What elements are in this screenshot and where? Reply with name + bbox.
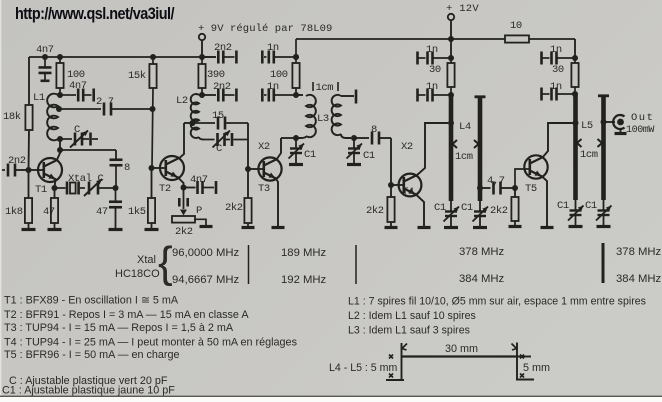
note L1 bbox=[348, 296, 646, 308]
svg-text:HC18CO: HC18CO bbox=[115, 268, 160, 280]
freq 96,0000 bbox=[172, 247, 240, 259]
resistor 390 bbox=[198, 57, 205, 95]
node rail-12V bbox=[448, 36, 454, 42]
wire T1 base bbox=[29, 169, 45, 171]
ground 2k2 T3 bbox=[242, 223, 255, 228]
node T1 collector bbox=[57, 147, 63, 153]
freq 192 bbox=[281, 274, 327, 286]
freq 384 a bbox=[459, 273, 505, 285]
capacitor 4n7 bypass at rail bbox=[39, 57, 52, 81]
svg-text:T4: T4 bbox=[402, 186, 414, 198]
wire supply rail 12V bbox=[296, 38, 575, 40]
svg-text:http://www.qsl.net/va3iul/: http://www.qsl.net/va3iul/ bbox=[15, 5, 175, 23]
dim left leg bbox=[401, 343, 403, 380]
svg-text:L1: L1 bbox=[33, 92, 45, 104]
label 1n s4b bbox=[426, 81, 438, 93]
svg-text:378 MHz: 378 MHz bbox=[459, 246, 505, 258]
svg-text:T1 : BFX89 - En oscillation I: T1 : BFX89 - En oscillation I ≅ 5 mA bbox=[4, 295, 179, 307]
trimmer C (T2 stage) bbox=[204, 131, 248, 148]
svg-text:L3: L3 bbox=[317, 113, 329, 125]
label 100 bbox=[67, 69, 85, 81]
note L4-L5 bbox=[329, 362, 397, 374]
svg-text:1cm: 1cm bbox=[316, 82, 334, 94]
ground cap47 bbox=[109, 228, 123, 231]
capacitor 1n (stage5 lower) bbox=[542, 88, 576, 101]
node T3 base bbox=[245, 166, 251, 172]
node T4 base bbox=[388, 182, 394, 188]
wire 12V down to stage4 bbox=[450, 39, 452, 58]
wire T5 base lead bbox=[515, 169, 529, 188]
freq 189 bbox=[281, 247, 327, 259]
wire T3 collector up bbox=[277, 138, 282, 160]
note L2 bbox=[348, 310, 476, 322]
label 1k5 bbox=[128, 206, 146, 218]
label L5 bbox=[581, 120, 593, 132]
label T1 bbox=[35, 184, 47, 196]
label +12V bbox=[446, 3, 479, 15]
ground pot bbox=[200, 225, 213, 228]
svg-text:1cm: 1cm bbox=[455, 151, 473, 163]
label 1cm L4 bbox=[455, 151, 473, 163]
node L3sec bottom bbox=[351, 135, 357, 141]
svg-text:1n: 1n bbox=[426, 44, 438, 56]
svg-text:5 mm: 5 mm bbox=[523, 362, 550, 374]
url header text bbox=[15, 5, 175, 23]
capacitor 8 (T4 coupling) bbox=[354, 132, 391, 145]
svg-text:C1 : Ajustable plastique jaune: C1 : Ajustable plastique jaune 10 pF bbox=[2, 385, 175, 397]
label 1n rail bbox=[267, 42, 279, 54]
wire collector row to cap8 bbox=[60, 150, 116, 159]
spacing arrows L5 bbox=[577, 139, 602, 147]
svg-text:L1 : 7 spires fil 10/10, Ø5 mm: L1 : 7 spires fil 10/10, Ø5 mm sur air, … bbox=[348, 296, 646, 308]
wire T4 base lead bbox=[391, 184, 403, 186]
node L2 tap bbox=[190, 120, 196, 126]
resistor 2k2 (T4 base) bbox=[387, 185, 394, 222]
label C (T1) bbox=[74, 124, 80, 136]
node T2 emitter bbox=[181, 185, 187, 191]
scan edge line bbox=[0, 396, 662, 397]
dim 30mm line bbox=[402, 355, 518, 357]
capacitor 2n2 (L2 top) bbox=[202, 89, 236, 102]
capacitor 15 bbox=[218, 117, 248, 130]
label 2k2 T5 bbox=[490, 205, 508, 217]
label 1n s5b bbox=[550, 81, 562, 93]
node T2 base bbox=[149, 165, 155, 171]
wire T2 collector up bbox=[179, 152, 185, 159]
trimmer C1 (L3 secondary) bbox=[347, 138, 363, 165]
label 15k bbox=[128, 70, 146, 82]
note T2 bbox=[4, 309, 249, 321]
label HC18CO bbox=[115, 268, 160, 280]
ground T4 emitter bbox=[418, 226, 431, 229]
label Xtal C bbox=[68, 173, 104, 185]
node L1 tap bbox=[56, 106, 62, 112]
ground 2k2 T4 bbox=[385, 222, 398, 228]
svg-text:4n7: 4n7 bbox=[190, 174, 208, 186]
note T5 bbox=[4, 349, 180, 361]
capacitor 4n7 (L1 top coupling) bbox=[60, 89, 94, 102]
spacing arrows L4 bbox=[453, 140, 479, 148]
legend 1cm coupling bbox=[313, 82, 338, 94]
wire T1 emitter down bbox=[55, 179, 56, 188]
freq 378 b bbox=[616, 246, 662, 258]
svg-text:8: 8 bbox=[371, 124, 377, 136]
trimmer C (Xtal series) bbox=[84, 179, 116, 196]
resistor 47 (T1 emitter) bbox=[51, 198, 58, 223]
dim arrow 5mm left top bbox=[389, 355, 393, 359]
resistor 2k2 (T5 base) bbox=[511, 188, 518, 221]
svg-text:189 MHz: 189 MHz bbox=[281, 247, 327, 259]
svg-text:1n: 1n bbox=[550, 81, 562, 93]
trimmer C (T1 feedback) bbox=[60, 131, 98, 148]
note L3 bbox=[348, 325, 470, 337]
label T4 bbox=[402, 186, 414, 198]
label L1 bbox=[33, 92, 45, 104]
svg-text:T3: T3 bbox=[258, 183, 270, 195]
wiper arrow onto pot bbox=[180, 210, 187, 216]
trimmer C1 (L5 right) bbox=[596, 200, 612, 227]
svg-text:384 MHz: 384 MHz bbox=[616, 273, 662, 285]
label 18k bbox=[3, 111, 21, 123]
label 30 s5 bbox=[552, 64, 564, 76]
label 1k8 bbox=[5, 206, 23, 218]
svg-text:30: 30 bbox=[552, 64, 564, 76]
resistor 15k (T2 base) bbox=[149, 57, 156, 168]
svg-text:47: 47 bbox=[43, 206, 55, 218]
wire L1 tap row bbox=[59, 108, 101, 110]
label 1cm L5 bbox=[580, 149, 598, 161]
svg-text:2k2: 2k2 bbox=[366, 205, 384, 217]
label 4,7 bbox=[487, 175, 505, 187]
label C1 c bbox=[434, 202, 446, 214]
inductor L4 left line bbox=[449, 95, 454, 201]
resistor 2k2 (T3 base) bbox=[244, 198, 251, 223]
capacitor 2n2 rail bypass bbox=[202, 51, 236, 64]
freq 94,6667 bbox=[172, 274, 240, 286]
node rail-100b-junction bbox=[293, 54, 299, 60]
ground T5 emitter bbox=[541, 226, 554, 229]
inductor L1 bbox=[47, 94, 60, 141]
svg-text:+ 12V: + 12V bbox=[446, 3, 479, 15]
wire left drop to 18k bbox=[28, 57, 30, 105]
svg-text:1k5: 1k5 bbox=[128, 206, 146, 218]
ground 2k2 T5 bbox=[509, 221, 522, 227]
svg-text:+ 9V régulé par 78L09: + 9V régulé par 78L09 bbox=[198, 23, 332, 35]
label 47 emitter bbox=[43, 206, 55, 218]
svg-text:100: 100 bbox=[270, 69, 288, 81]
node rail-9V bbox=[199, 54, 205, 60]
note C1 bbox=[2, 385, 175, 397]
label +9V regule bbox=[198, 23, 332, 35]
label 390 bbox=[207, 69, 225, 81]
label 8 (T1) bbox=[124, 162, 130, 174]
node L1 top bbox=[57, 92, 63, 98]
wire L2 tap to collector line bbox=[184, 123, 194, 152]
label 10 bbox=[510, 20, 522, 32]
dim arrow 30mm right bbox=[512, 344, 517, 351]
resistor 1k8 bbox=[25, 198, 32, 223]
transistor T2 bbox=[160, 156, 184, 180]
svg-text:T1: T1 bbox=[35, 184, 47, 196]
dim top-right tick bbox=[517, 356, 531, 358]
wire emitter to 47 bbox=[54, 188, 56, 198]
label 4n7 coupling bbox=[69, 80, 87, 92]
capacitor 1n (stage5 upper) bbox=[542, 52, 576, 65]
label P bbox=[196, 205, 202, 217]
wire pot to ground bbox=[195, 219, 206, 226]
dim arrow 5mm left bottom bbox=[389, 374, 393, 378]
wire L1 bottom to collector node bbox=[59, 139, 61, 150]
svg-text:2n2: 2n2 bbox=[214, 42, 232, 54]
ground 47 bbox=[48, 223, 62, 230]
wire T3 base bbox=[248, 168, 264, 170]
label 15 bbox=[212, 110, 224, 122]
terminal +9V bbox=[199, 34, 205, 57]
transistor T1 bbox=[38, 158, 62, 182]
capacitor 4n7 (T2 emitter) bbox=[184, 181, 217, 194]
label L2 bbox=[176, 95, 188, 107]
note C bbox=[9, 375, 168, 387]
trimmer C1 (L4 right) bbox=[473, 201, 489, 228]
resistor 100 (stage3) bbox=[292, 39, 299, 95]
capacitor 1n (stage4 lower) bbox=[418, 89, 452, 102]
label C (T2) bbox=[216, 143, 222, 155]
node T5 collector tap bbox=[573, 120, 579, 126]
node L1 bottom bbox=[57, 136, 63, 142]
resistor 18k (T1 base) bbox=[25, 105, 32, 130]
transistor T3 bbox=[258, 157, 281, 180]
wire to output bbox=[604, 121, 616, 123]
wire T5 collector up bbox=[543, 123, 574, 158]
label 2,7 bbox=[96, 96, 114, 108]
svg-text:2n2: 2n2 bbox=[8, 155, 26, 167]
label 4n7 T2 bbox=[190, 174, 208, 186]
svg-text:Xtal: Xtal bbox=[137, 254, 156, 266]
svg-text:L5: L5 bbox=[581, 120, 593, 132]
white bottom strip bbox=[0, 397, 662, 402]
crystal Xtal bbox=[55, 182, 86, 195]
terminal +12V bbox=[448, 14, 454, 39]
label C1 f bbox=[585, 200, 597, 212]
capacitor 2,7 bbox=[104, 103, 153, 116]
ground 1k5 bbox=[145, 223, 159, 230]
label C1 b bbox=[363, 150, 375, 162]
svg-text:L4 - L5 : 5 mm: L4 - L5 : 5 mm bbox=[329, 362, 397, 374]
node xtal-cap47 bbox=[113, 185, 119, 191]
svg-text:Xtal C: Xtal C bbox=[68, 173, 104, 185]
resistor 10 (horizontal) bbox=[505, 35, 529, 42]
node output tap bbox=[601, 119, 607, 125]
label X2 doubler1 bbox=[258, 141, 270, 153]
wire T5 emitter down bbox=[542, 176, 548, 226]
connector Out bbox=[613, 115, 626, 133]
svg-text:94,6667 MHz: 94,6667 MHz bbox=[172, 274, 240, 286]
svg-text:T2 : BFR91 - Repos I = 3 mA —: T2 : BFR91 - Repos I = 3 mA — 15 mA en c… bbox=[4, 309, 249, 321]
label 1n s4a bbox=[426, 44, 438, 56]
node rail-R100b bbox=[293, 54, 299, 60]
resistor 30 (stage5) bbox=[571, 58, 578, 94]
label C1 a bbox=[304, 149, 316, 161]
label 30 mm bbox=[445, 343, 478, 355]
wire supply rail stage1-2 (9V) bbox=[29, 56, 216, 58]
svg-text:15: 15 bbox=[212, 110, 224, 122]
wire T1 base to 1k8 bbox=[28, 170, 30, 198]
label Out bbox=[631, 112, 654, 124]
node rail-bypass bbox=[42, 54, 48, 60]
svg-text:T4 : TUP94 - I = 25 mA — I peu: T4 : TUP94 - I = 25 mA — I peut monter à… bbox=[4, 337, 298, 349]
wire T4 collector up bbox=[417, 123, 449, 176]
label 47 cap bbox=[96, 206, 108, 218]
label T3 bbox=[258, 183, 270, 195]
svg-text:2k2: 2k2 bbox=[175, 226, 193, 238]
node s4 upper bbox=[448, 55, 454, 61]
trimmer C1 (L3 primary) bbox=[289, 138, 305, 165]
inductor L3 secondary bbox=[332, 90, 356, 139]
label 30 s4 bbox=[429, 64, 441, 76]
svg-text:C: C bbox=[74, 124, 80, 136]
svg-text:C1: C1 bbox=[461, 202, 473, 214]
node T4 collector tap bbox=[448, 120, 454, 126]
wire T4 emitter down bbox=[416, 194, 425, 227]
potentiometer P box bbox=[172, 216, 195, 223]
svg-text:L2: L2 bbox=[176, 95, 188, 107]
table bar 3 thick bbox=[602, 243, 605, 283]
capacitor 1n (stage4 upper) bbox=[418, 52, 452, 65]
trimmer C1 (L5 left) bbox=[568, 200, 584, 227]
node L3 bottom bbox=[293, 135, 299, 141]
wire T3 base column bbox=[247, 123, 249, 198]
svg-text:378 MHz: 378 MHz bbox=[616, 246, 662, 258]
series capacitor bars to pot bbox=[179, 188, 187, 210]
capacitor 47 (decoupling) bbox=[109, 188, 122, 229]
svg-text:390: 390 bbox=[207, 69, 225, 81]
label 2k2 T4 bbox=[366, 205, 384, 217]
label 2k2 pot bbox=[175, 226, 193, 238]
svg-text:2n2: 2n2 bbox=[213, 81, 231, 93]
label X2 doubler2 bbox=[401, 141, 413, 153]
node L3 top bbox=[293, 92, 299, 98]
svg-text:P: P bbox=[196, 205, 202, 217]
svg-text:T5 : BFR96 - I = 50 mA — en: T5 : BFR96 - I = 50 mA — en charge bbox=[4, 349, 180, 361]
node 2,7 to T2 base line bbox=[150, 106, 156, 112]
label 5 mm bbox=[523, 362, 550, 374]
label 100mW bbox=[626, 125, 654, 136]
label 8 T4 bbox=[371, 124, 377, 136]
wire T2 base to 1k5 bbox=[151, 168, 153, 198]
wire T3 emitter down bbox=[276, 178, 279, 227]
node L5 top bbox=[572, 91, 578, 97]
svg-text:T3 : TUP94 - I = 15 mA — Repos: T3 : TUP94 - I = 15 mA — Repos I = 1,5 à… bbox=[4, 322, 234, 334]
freq 384 b bbox=[616, 273, 662, 285]
label 2k2 T3 bbox=[225, 202, 243, 214]
wire T2 emitter down bbox=[178, 177, 184, 188]
label 100 stage3 bbox=[270, 69, 288, 81]
node s5 upper bbox=[572, 55, 578, 61]
node rail-15k bbox=[150, 54, 156, 60]
freq 378 a bbox=[459, 246, 505, 258]
label T2 bbox=[159, 183, 171, 195]
wire L2 tap to cap15 bbox=[194, 122, 215, 124]
svg-text:X2: X2 bbox=[401, 141, 413, 153]
dim bottom-left tick bbox=[386, 379, 404, 381]
svg-text:1k8: 1k8 bbox=[5, 206, 23, 218]
label Xtal bbox=[137, 254, 156, 266]
node L2 top bbox=[199, 92, 205, 98]
svg-text:30 mm: 30 mm bbox=[445, 343, 478, 355]
svg-text:C1: C1 bbox=[304, 149, 316, 161]
svg-text:2k2: 2k2 bbox=[225, 202, 243, 214]
svg-text:8: 8 bbox=[124, 162, 130, 174]
label 4n7 bypass bbox=[36, 44, 54, 56]
svg-text:1cm: 1cm bbox=[580, 149, 598, 161]
note T4 bbox=[4, 337, 298, 349]
svg-text:T2: T2 bbox=[159, 183, 171, 195]
label 2n2 rail bbox=[214, 42, 232, 54]
svg-text:4n7: 4n7 bbox=[69, 80, 87, 92]
node T5 base bbox=[512, 185, 518, 191]
svg-text:100mW: 100mW bbox=[626, 125, 654, 136]
label L3 bbox=[317, 113, 329, 125]
trimmer C1 (L4 left) bbox=[444, 201, 460, 228]
table bar 1 bbox=[248, 245, 250, 284]
svg-text:10: 10 bbox=[510, 20, 522, 32]
svg-text:1n: 1n bbox=[426, 81, 438, 93]
wire to T4 base bbox=[390, 138, 392, 185]
node L4 output tap bbox=[477, 185, 483, 191]
ground T3 emitter bbox=[272, 226, 285, 229]
label C1 d bbox=[461, 202, 473, 214]
dim arrow 5mm right top bbox=[520, 355, 524, 359]
table bar 2 bbox=[355, 245, 357, 284]
dim arrow 30mm left bbox=[402, 344, 407, 351]
ground 1k8 bbox=[22, 223, 36, 230]
label 2n2 L2 bbox=[213, 81, 231, 93]
inductor L5 left line bbox=[573, 94, 578, 200]
svg-text:X2: X2 bbox=[258, 141, 270, 153]
svg-text:C1: C1 bbox=[434, 202, 446, 214]
svg-text:47: 47 bbox=[96, 206, 108, 218]
node T1 emitter bbox=[52, 185, 58, 191]
svg-text:L3 : Idem L1 sauf 3 spires: L3 : Idem L1 sauf 3 spires bbox=[348, 325, 470, 337]
svg-text:18k: 18k bbox=[3, 111, 21, 123]
svg-text:15k: 15k bbox=[128, 70, 146, 82]
svg-text:30: 30 bbox=[429, 64, 441, 76]
resistor 1k5 bbox=[148, 198, 155, 223]
svg-text:L2 : Idem L1 sauf 10 spires: L2 : Idem L1 sauf 10 spires bbox=[348, 310, 476, 322]
svg-text:96,0000 MHz: 96,0000 MHz bbox=[172, 247, 240, 259]
svg-text:T5: T5 bbox=[525, 183, 537, 195]
svg-text:1n: 1n bbox=[550, 44, 562, 56]
label 2n2 input bbox=[8, 155, 26, 167]
svg-text:1n: 1n bbox=[267, 81, 279, 93]
inductor L3 primary bbox=[296, 95, 316, 138]
wire T1 collector up bbox=[57, 150, 61, 161]
svg-text:2k2: 2k2 bbox=[490, 205, 508, 217]
note T1 bbox=[4, 295, 179, 307]
svg-text:4,7: 4,7 bbox=[487, 175, 505, 187]
inductor L2 bbox=[191, 94, 204, 140]
label C1 e bbox=[557, 200, 569, 212]
svg-text:192 MHz: 192 MHz bbox=[281, 274, 327, 286]
svg-text:C1: C1 bbox=[363, 150, 375, 162]
label 1n s5a bbox=[550, 44, 562, 56]
node L4 top bbox=[448, 92, 454, 98]
inductor L4 right line bbox=[475, 97, 486, 202]
brace bbox=[158, 238, 173, 287]
wire rail corner to stage5 bbox=[574, 39, 576, 58]
dim arrow 5mm right bottom bbox=[520, 374, 524, 378]
transistor T5 bbox=[524, 155, 547, 178]
